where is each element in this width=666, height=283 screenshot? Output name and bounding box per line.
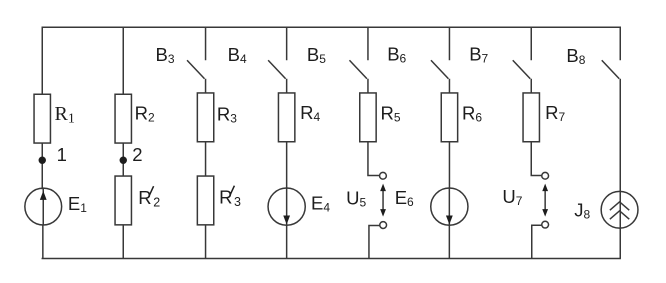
svg-text:R: R [138, 187, 151, 208]
svg-text:B3: B3 [156, 44, 175, 66]
svg-text:B8: B8 [566, 45, 585, 67]
wire branch6 bottom [448, 225, 450, 258]
switch B4 [286, 27, 288, 61]
terminal lower U5 [380, 222, 387, 229]
wire branch4 bottom [286, 225, 288, 258]
svg-text:E1: E1 [68, 193, 87, 215]
svg-text:R4: R4 [300, 102, 320, 124]
svg-text:B4: B4 [228, 44, 247, 66]
svg-text:R2: R2 [135, 103, 155, 125]
svg-text:1: 1 [57, 144, 67, 165]
wire branch6 mid [448, 142, 450, 189]
resistor R6 [441, 93, 457, 142]
svg-text:B5: B5 [307, 44, 326, 66]
wire branch4 mid [286, 142, 288, 189]
switch B3 [205, 27, 207, 61]
svg-text:R7: R7 [545, 102, 565, 124]
svg-text:R6: R6 [462, 102, 482, 124]
resistor R2 [115, 94, 131, 143]
switch B6 [448, 27, 450, 61]
switch B7 [530, 27, 532, 61]
svg-text:R5: R5 [381, 102, 401, 124]
wire branch2 top [122, 27, 124, 95]
resistor R4 [278, 93, 294, 142]
terminal upper U5 [380, 172, 387, 179]
resistor R'3 [197, 176, 213, 225]
wire branch2 bottom [122, 225, 124, 259]
wire top bus [42, 26, 621, 28]
svg-text:U7: U7 [502, 186, 522, 208]
wire branch1 bottom [42, 225, 44, 259]
resistor R'2 [115, 176, 131, 225]
wire branch1 mid [41, 143, 43, 189]
svg-text:J8: J8 [574, 199, 590, 221]
switch B8 [619, 27, 621, 61]
terminal upper U7 [542, 172, 549, 179]
wire branch1 top [41, 27, 43, 95]
resistor R7 [523, 93, 539, 142]
wire branch5 to upper terminal [368, 142, 380, 176]
svg-text:2: 2 [153, 195, 160, 209]
wire branch2 mid [122, 143, 124, 176]
arrow U7 [544, 189, 546, 212]
resistor R5 [360, 93, 376, 142]
wire branch5 bottom [369, 226, 380, 259]
svg-text:E6: E6 [395, 187, 414, 209]
svg-text:2: 2 [132, 144, 142, 165]
node 2 dot [120, 157, 127, 164]
wire branch3 mid [205, 142, 207, 177]
source E6 [431, 188, 468, 225]
wire branch7 bottom [532, 225, 542, 258]
arrow U5 [382, 189, 384, 212]
resistor R1 [34, 94, 50, 143]
source E1 [25, 188, 62, 225]
node 1 dot [39, 157, 46, 164]
svg-text:R1: R1 [55, 103, 75, 127]
svg-text:B6: B6 [387, 44, 406, 66]
svg-text:R3: R3 [217, 104, 237, 126]
svg-text:E4: E4 [311, 192, 330, 214]
source E4 [268, 188, 305, 225]
source J8 [601, 191, 638, 228]
wire bottom bus [42, 257, 621, 259]
svg-text:U5: U5 [346, 188, 366, 210]
svg-text:R: R [219, 187, 232, 208]
svg-text:B7: B7 [469, 44, 488, 66]
wire branch8 mid [619, 79, 621, 259]
wire branch7 to upper terminal [531, 142, 542, 176]
resistor R3 [197, 93, 213, 142]
terminal lower U7 [542, 221, 549, 228]
wire branch3 bottom [205, 225, 207, 259]
svg-text:3: 3 [234, 195, 241, 209]
switch B5 [367, 27, 369, 61]
